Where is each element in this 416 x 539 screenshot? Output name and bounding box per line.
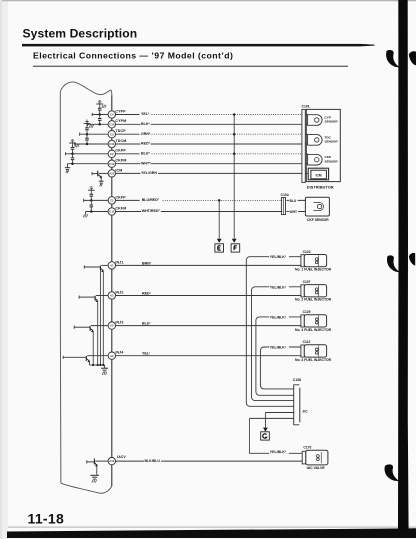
wire RED&#185; INJ2 [116, 295, 302, 297]
svg-text:A1: A1 [110, 264, 114, 268]
svg-text:C1: C1 [110, 199, 114, 203]
svg-text:YEL¹: YEL¹ [142, 352, 151, 356]
ECM pin CKFP (C1) [108, 197, 115, 204]
ECM pin INJ4 (A2) [108, 352, 115, 359]
ECM pin INJ2 (A3) [108, 292, 115, 299]
svg-text:BLK/BLU: BLK/BLU [145, 459, 161, 463]
fuel injector INJ4 [304, 345, 326, 357]
connector box G [261, 432, 270, 440]
transistor Q-ICM [99, 172, 108, 174]
ground (injector drivers) [104, 365, 106, 368]
arrow E [217, 239, 222, 243]
svg-text:No. 3 FUEL INJECTOR: No. 3 FUEL INJECTOR [295, 328, 332, 332]
IAC valve [306, 450, 328, 465]
svg-text:C11: C11 [109, 210, 114, 214]
pin CYPM left stub [88, 123, 108, 125]
svg-text:C123: C123 [303, 250, 311, 254]
ECM torn bottom edge [61, 483, 112, 493]
svg-text:J/C: J/C [302, 410, 308, 414]
svg-text:IAC VALVE: IAC VALVE [307, 466, 326, 470]
wire BLU to CKF sensor [287, 199, 306, 201]
svg-text:BRN¹: BRN¹ [142, 261, 152, 265]
svg-text:C3: C3 [110, 132, 114, 136]
svg-text:C129: C129 [303, 310, 311, 314]
spine clip bottom [385, 464, 400, 481]
svg-text:BLK*: BLK* [141, 122, 150, 126]
svg-text:YEL/BLK²: YEL/BLK² [270, 315, 287, 319]
svg-text:WHT*: WHT* [141, 161, 151, 165]
svg-text:CKF SENSOR: CKF SENSOR [307, 218, 329, 222]
test point line E [218, 199, 221, 202]
svg-text:SENSOR: SENSOR [325, 140, 339, 144]
svg-text:BLU*: BLU* [141, 151, 150, 155]
svg-text:C12: C12 [109, 162, 115, 166]
arrow F [232, 239, 237, 243]
svg-text:A3: A3 [110, 294, 114, 298]
svg-text:TDCP: TDCP [115, 129, 126, 133]
svg-text:INJ2: INJ2 [115, 290, 123, 294]
filter capacitors C-CKP [69, 142, 76, 144]
svg-text:CKFM: CKFM [115, 206, 126, 210]
wire BLU* pin CKPP [116, 153, 140, 155]
svg-text:A2: A2 [110, 354, 114, 358]
spine clip middle [387, 255, 400, 272]
connector box E [215, 244, 224, 252]
svg-text:A5: A5 [110, 324, 114, 328]
svg-text:YEL*: YEL* [141, 112, 150, 116]
svg-text:System Description: System Description [23, 26, 138, 40]
wire RED* pin TDCM [116, 143, 302, 145]
connector C170 [302, 451, 306, 464]
svg-text:ICM: ICM [316, 173, 322, 177]
svg-text:No. 1 FUEL INJECTOR: No. 1 FUEL INJECTOR [295, 268, 332, 272]
svg-text:C14: C14 [109, 122, 115, 126]
svg-text:GRN*: GRN* [141, 132, 151, 136]
wire BLU&#185; INJ3 [116, 325, 302, 327]
svg-text:CYPM: CYPM [115, 119, 126, 123]
svg-text:YEL/BLK²: YEL/BLK² [270, 255, 287, 259]
connector C107 [301, 285, 304, 297]
svg-text:CKPP: CKPP [115, 149, 126, 153]
fuel injector INJ1 [304, 255, 326, 267]
wire CKFM [116, 211, 283, 213]
svg-text:RED*: RED* [141, 142, 151, 146]
CKF sensor box [305, 197, 329, 216]
distributor box [306, 109, 340, 181]
ECM pin TDCM (C13) [108, 140, 115, 147]
pin CYPP left stub [92, 114, 108, 116]
ECM pin CYPP (C4) [108, 111, 115, 118]
svg-text:C104: C104 [281, 193, 289, 197]
svg-text:TDCM: TDCM [115, 139, 126, 143]
wire J/C to G [265, 412, 293, 414]
svg-text:YEL/BLK²: YEL/BLK² [270, 285, 287, 289]
wire BRN&#185; INJ1 [116, 264, 302, 266]
wire YEL/BLK to IAC valve [249, 417, 293, 419]
svg-text:WHT/RED²: WHT/RED² [142, 209, 161, 213]
transistor Q-INJ4 [87, 355, 108, 357]
shield drain line to F [233, 115, 235, 239]
pin CKPP left stub [66, 153, 109, 155]
svg-text:ICM: ICM [115, 168, 122, 172]
title rule [22, 44, 360, 47]
svg-text:C112: C112 [303, 340, 311, 344]
svg-text:CYPP: CYPP [115, 109, 126, 113]
transistor Q-INJ3 [91, 325, 108, 327]
svg-text:INJ3: INJ3 [115, 321, 123, 325]
wire GRN* pin TDCP [116, 133, 140, 135]
svg-text:YEL/BLK²: YEL/BLK² [270, 450, 287, 454]
svg-text:SENSOR: SENSOR [325, 120, 339, 124]
ECM pin INJ1 (A1) [108, 262, 115, 269]
junction connector C138 [294, 385, 300, 425]
svg-text:A12: A12 [109, 459, 115, 463]
CKP sensor [308, 154, 323, 165]
svg-text:BLU: BLU [290, 199, 297, 203]
svg-text:Electrical Connections — ’97 M: Electrical Connections — ’97 Model (cont… [33, 50, 233, 60]
transistor Q-INJ1 [101, 264, 108, 266]
TDC sensor [308, 135, 323, 146]
svg-text:SENSOR: SENSOR [325, 159, 339, 163]
binder spine bar [398, 0, 409, 531]
ICM module [308, 168, 328, 180]
connector C101 [302, 109, 305, 182]
connector C123 [301, 255, 304, 267]
svg-text:C107: C107 [303, 280, 311, 284]
svg-text:INJ1: INJ1 [115, 260, 123, 264]
wire WHT* pin CKPM [116, 163, 302, 165]
wire BLK* pin CYPM [116, 123, 302, 125]
svg-text:A21: A21 [109, 172, 115, 176]
filter capacitors C-TDC [84, 123, 91, 125]
svg-text:WHT: WHT [290, 210, 298, 214]
wire YEL* pin CYPP [116, 114, 140, 116]
pin CKFM left stub and ground [86, 211, 109, 213]
pin CKFP left stub [84, 199, 108, 201]
ECM pin CKFM (C11) [108, 208, 115, 215]
svg-text:CKFP: CKFP [115, 195, 126, 199]
ECM connector bus [111, 95, 113, 486]
ECM pin CYPM (C14) [108, 121, 115, 128]
svg-text:11-18: 11-18 [28, 510, 65, 526]
svg-text:C2: C2 [110, 152, 114, 156]
svg-text:No. 4 FUEL INJECTOR: No. 4 FUEL INJECTOR [295, 358, 332, 362]
spine clip top [386, 50, 400, 68]
fuel injector INJ2 [304, 285, 326, 297]
ECM pin IACV (A12) [108, 457, 115, 464]
svg-text:C4: C4 [110, 113, 114, 117]
transistor Q-INJ2 [96, 295, 108, 297]
ECM torn top edge [60, 82, 112, 95]
svg-text:C101: C101 [302, 104, 310, 108]
pin TDCM left stub [75, 143, 108, 145]
emitter bus to ground [102, 271, 104, 365]
svg-text:BLU¹: BLU¹ [142, 322, 151, 326]
pin TDCP left stub [80, 133, 109, 135]
svg-text:C170: C170 [303, 445, 311, 449]
wire CKFP [116, 199, 140, 201]
bottom black bar [8, 527, 416, 528]
svg-text:No. 2 FUEL INJECTOR: No. 2 FUEL INJECTOR [295, 298, 332, 302]
CYP sensor [308, 115, 322, 126]
svg-text:C13: C13 [109, 142, 115, 146]
wire YEL/BLK feed INJ1 [246, 257, 301, 407]
filter capacitors C-CYP [96, 103, 103, 105]
connector C104 [281, 198, 285, 215]
pin CKPM left stub and ground [68, 163, 109, 165]
wire BLK/BLU IACV [116, 460, 303, 462]
svg-text:YEL/GRN: YEL/GRN [141, 171, 157, 175]
wire YEL/BLK feed INJ4 [260, 347, 301, 389]
filter capacitors C-CKF [88, 189, 95, 191]
wire YEL/BLK feed INJ3 [256, 317, 302, 395]
svg-text:INJ4: INJ4 [115, 351, 123, 355]
arrow G [263, 428, 268, 432]
wire YEL/GRN pin ICM [116, 172, 302, 174]
wire YEL&#185; INJ4 [116, 355, 302, 357]
svg-text:C138: C138 [293, 378, 301, 382]
subtitle rule [33, 66, 348, 67]
connector C129 [301, 315, 304, 327]
fuel injector INJ3 [304, 315, 326, 327]
svg-text:YEL/BLK²: YEL/BLK² [270, 346, 287, 350]
svg-text:BLU/RED²: BLU/RED² [142, 198, 160, 202]
wire YEL/BLK feed INJ2 [252, 287, 302, 401]
ECM pin INJ3 (A5) [108, 322, 115, 329]
svg-text:DISTRIBUTOR: DISTRIBUTOR [307, 186, 334, 190]
svg-text:RED¹: RED¹ [142, 291, 152, 295]
transistor Q-IACV [95, 460, 108, 462]
ECM pin TDCP (C3) [108, 131, 115, 138]
connector C112 [301, 345, 304, 357]
ground (IACV driver) [90, 474, 99, 476]
ECM pin CKPP (C2) [108, 150, 115, 157]
svg-text:IACV: IACV [117, 455, 126, 459]
ECM pin ICM (A21) [108, 170, 115, 177]
ECM left edge [59, 92, 62, 484]
svg-text:CKPM: CKPM [115, 159, 126, 163]
connector box F [231, 244, 240, 252]
ECM pin CKPM (C12) [108, 160, 115, 167]
wire WHT to CKF sensor [287, 211, 306, 213]
